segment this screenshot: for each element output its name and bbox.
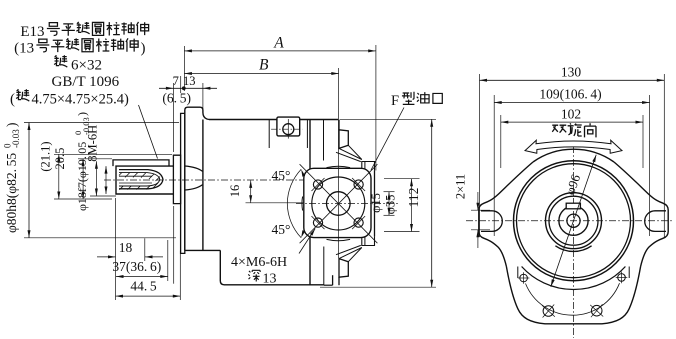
front view horizontal centerline — [466, 220, 674, 222]
svg-text:(13: (13 — [14, 41, 34, 57]
svg-text:4×M6-6H: 4×M6-6H — [231, 255, 287, 270]
dim 44.5 line — [116, 295, 181, 297]
port boss arc right — [373, 197, 376, 211]
svg-text:(: ( — [10, 92, 15, 108]
rear bolt circle arc — [526, 283, 620, 315]
svg-text:): ) — [141, 41, 146, 57]
rear cover bottom-right corner — [338, 277, 340, 285]
svg-text:37(36. 6): 37(36. 6) — [112, 259, 161, 274]
svg-text:45°: 45° — [272, 222, 291, 237]
port plug hole right — [591, 305, 602, 316]
dim 109 ext — [493, 95, 495, 236]
svg-text:A: A — [273, 35, 284, 52]
svg-text:φ80h8(φ82. 55: φ80h8(φ82. 55 — [4, 153, 19, 233]
dim ext x173.4 — [172, 83, 174, 152]
svg-text:(6. 5): (6. 5) — [162, 91, 191, 106]
right ear slot — [645, 211, 666, 232]
dim phi80h8 ext top — [24, 122, 179, 124]
svg-text:4.75×4.75×25.4): 4.75×4.75×25.4) — [32, 92, 129, 108]
rear cover silhouette (bottom) — [506, 267, 640, 324]
ext x180.3 — [179, 251, 181, 300]
svg-text:GB/T 1096: GB/T 1096 — [52, 74, 120, 90]
dim phi18f7 line — [95, 161, 97, 196]
top-right corner block — [362, 162, 375, 171]
svg-text:B: B — [259, 57, 269, 74]
leader 4xM6-6H — [299, 229, 315, 254]
front cover (bell housing) — [185, 107, 209, 250]
left ear slot — [481, 211, 502, 232]
bearing housing inner — [549, 196, 598, 245]
rear cover bottom edge — [324, 284, 333, 286]
svg-text:16: 16 — [228, 185, 242, 198]
port plug hole left — [543, 306, 554, 317]
dim phi80h8 ext bottom — [24, 237, 176, 239]
top screw boss — [277, 117, 300, 136]
front cover right edge — [202, 120, 204, 251]
keyway on shaft — [566, 203, 580, 209]
dim phi18f7 text — [73, 112, 91, 211]
ext shaft-end x115.5 — [115, 198, 117, 300]
mounting flange outline right — [614, 162, 668, 267]
front cover bottom — [185, 249, 221, 251]
front view vertical centerline — [573, 146, 575, 338]
dim phi80h8 line — [28, 123, 30, 238]
ext x167.8 — [167, 240, 169, 281]
dim 112 ext bottom — [320, 286, 436, 288]
rear cover rim edge bottom — [323, 247, 325, 286]
dim 2x11 ext — [471, 209, 490, 211]
svg-text:13: 13 — [263, 272, 277, 287]
svg-text:(21.1): (21.1) — [39, 141, 53, 171]
svg-text:): ) — [75, 112, 89, 116]
svg-text:E13: E13 — [20, 24, 44, 40]
dim A ext right — [375, 45, 377, 171]
svg-text:F: F — [391, 93, 399, 109]
mounting flange outline left — [479, 162, 533, 267]
svg-text:-0.03: -0.03 — [11, 129, 21, 148]
svg-text:45°: 45° — [272, 168, 291, 183]
dim A line — [184, 50, 375, 52]
port pad vertical centerline — [338, 68, 340, 258]
dim phi15 line — [388, 192, 390, 216]
dim 112 ext top — [340, 118, 436, 120]
boss base sides — [268, 120, 270, 149]
4x M6 tapped holes — [313, 180, 322, 189]
dim (21.1) line — [58, 154, 60, 199]
dim 16 ext — [246, 202, 305, 204]
svg-text:): ) — [4, 123, 19, 128]
rear cover right face — [374, 171, 376, 237]
dim 112 line — [431, 119, 433, 287]
top lug chamfer lines — [339, 148, 362, 159]
cover fillet curve upper — [185, 166, 203, 171]
dim phi15 ext — [384, 191, 395, 193]
dim 37 line — [116, 276, 168, 278]
svg-text:13: 13 — [183, 74, 196, 88]
leader from note to key — [139, 105, 158, 159]
rear cover top-right corner — [338, 120, 340, 130]
dim 130 line — [480, 79, 665, 81]
dual-rotation curved arrow — [525, 140, 622, 153]
label dual-rotation — [552, 125, 566, 132]
spigot circle outer phi82.55 — [514, 161, 634, 281]
key seat: outer bullet outline — [119, 170, 163, 189]
svg-text:112: 112 — [406, 188, 421, 208]
phi96 top arc — [533, 149, 614, 162]
dim phi35 ext — [384, 178, 420, 180]
front flange plate — [181, 113, 185, 253]
phi96 bottom arc — [522, 267, 626, 290]
45deg dimension arc — [287, 169, 301, 238]
rear bolt hole right — [618, 274, 626, 282]
body bottom edge — [220, 250, 323, 284]
bottom-right corner block — [362, 236, 375, 245]
bearing bore arc bottom — [555, 246, 591, 252]
svg-text:φ15: φ15 — [369, 193, 383, 213]
port pad horizontal centerline — [296, 203, 399, 205]
top screw crosshair — [287, 119, 289, 139]
dim 18 line — [97, 256, 116, 258]
shaft circle — [559, 206, 588, 235]
leader F-port — [371, 108, 404, 171]
port phi15 hole — [327, 192, 351, 216]
dim 102 ext — [500, 115, 502, 168]
pump body top edge — [209, 119, 310, 121]
top lug block — [339, 130, 348, 149]
bearing housing outer — [546, 193, 602, 249]
ext x144.8 — [144, 238, 146, 261]
spigot circle inner — [517, 164, 631, 278]
dim 109 line — [494, 102, 649, 104]
svg-text:6×32: 6×32 — [71, 58, 102, 74]
dim 8M-6H line — [105, 166, 107, 194]
port hole diagonal axis 1 — [300, 164, 378, 243]
dim 20.5 line — [82, 159, 84, 199]
svg-text:φ35: φ35 — [384, 195, 398, 215]
rear cover rim edge top — [323, 120, 325, 161]
port hole diagonal axis 2 — [300, 164, 378, 243]
svg-text:109(106. 4): 109(106. 4) — [539, 87, 601, 102]
centerline: shaft axis (side view) — [104, 179, 308, 181]
rear cover top edge — [310, 119, 338, 121]
bottom lug chamfer lines — [339, 248, 362, 259]
seal plate at shaft exit — [173, 155, 180, 203]
cover fillet curve lower — [185, 185, 203, 190]
svg-text:7: 7 — [173, 74, 179, 88]
dim 2x11 line — [477, 192, 479, 210]
dim 7-13 divider ext — [180, 76, 182, 93]
dim small ext lines — [54, 153, 172, 155]
svg-text:20.5: 20.5 — [53, 148, 67, 170]
rear bolt hole left — [520, 274, 528, 282]
bucket inner step left — [517, 267, 519, 279]
label depth 13 — [248, 270, 260, 281]
dim 102 line — [501, 121, 643, 123]
svg-text:18: 18 — [119, 240, 133, 255]
dim phi80h8 text — [3, 123, 22, 234]
dim ext x202.9 — [202, 83, 204, 110]
dim 130 ext — [479, 74, 481, 237]
bucket inner step right — [628, 267, 630, 279]
svg-text:2×11: 2×11 — [454, 174, 468, 199]
svg-text:8M-6H: 8M-6H — [86, 125, 100, 162]
dim 16 line — [250, 180, 252, 202]
note line3: key 6x32 — [54, 55, 67, 67]
port boss arc top — [327, 166, 351, 167]
bottom lug block — [339, 259, 348, 278]
shaft (cylindrical extension) — [116, 166, 173, 194]
svg-text:130: 130 — [561, 65, 582, 80]
dim 7-13 line — [159, 87, 217, 89]
key seat hatching — [119, 172, 122, 175]
key 6x32 profile above shaft — [113, 160, 169, 166]
dim B line — [184, 73, 338, 75]
key inner lines — [119, 175, 152, 177]
svg-text:102: 102 — [561, 106, 581, 121]
shaft center hole — [567, 214, 580, 227]
svg-text:44. 5: 44. 5 — [130, 279, 157, 294]
port boss arc left — [301, 197, 304, 211]
dim A-B ext line — [183, 46, 185, 91]
F-port pad outline — [304, 168, 371, 237]
phi96 diameter line — [551, 155, 596, 287]
top screw head circle — [283, 124, 294, 135]
port phi35 circle — [312, 177, 365, 230]
port boss arc bottom — [327, 239, 351, 240]
dim phi35 line — [411, 179, 413, 232]
body/rear-cover joint — [309, 120, 311, 285]
key seat: inner bullet outline — [119, 173, 160, 186]
ext x173.7 — [173, 206, 175, 284]
